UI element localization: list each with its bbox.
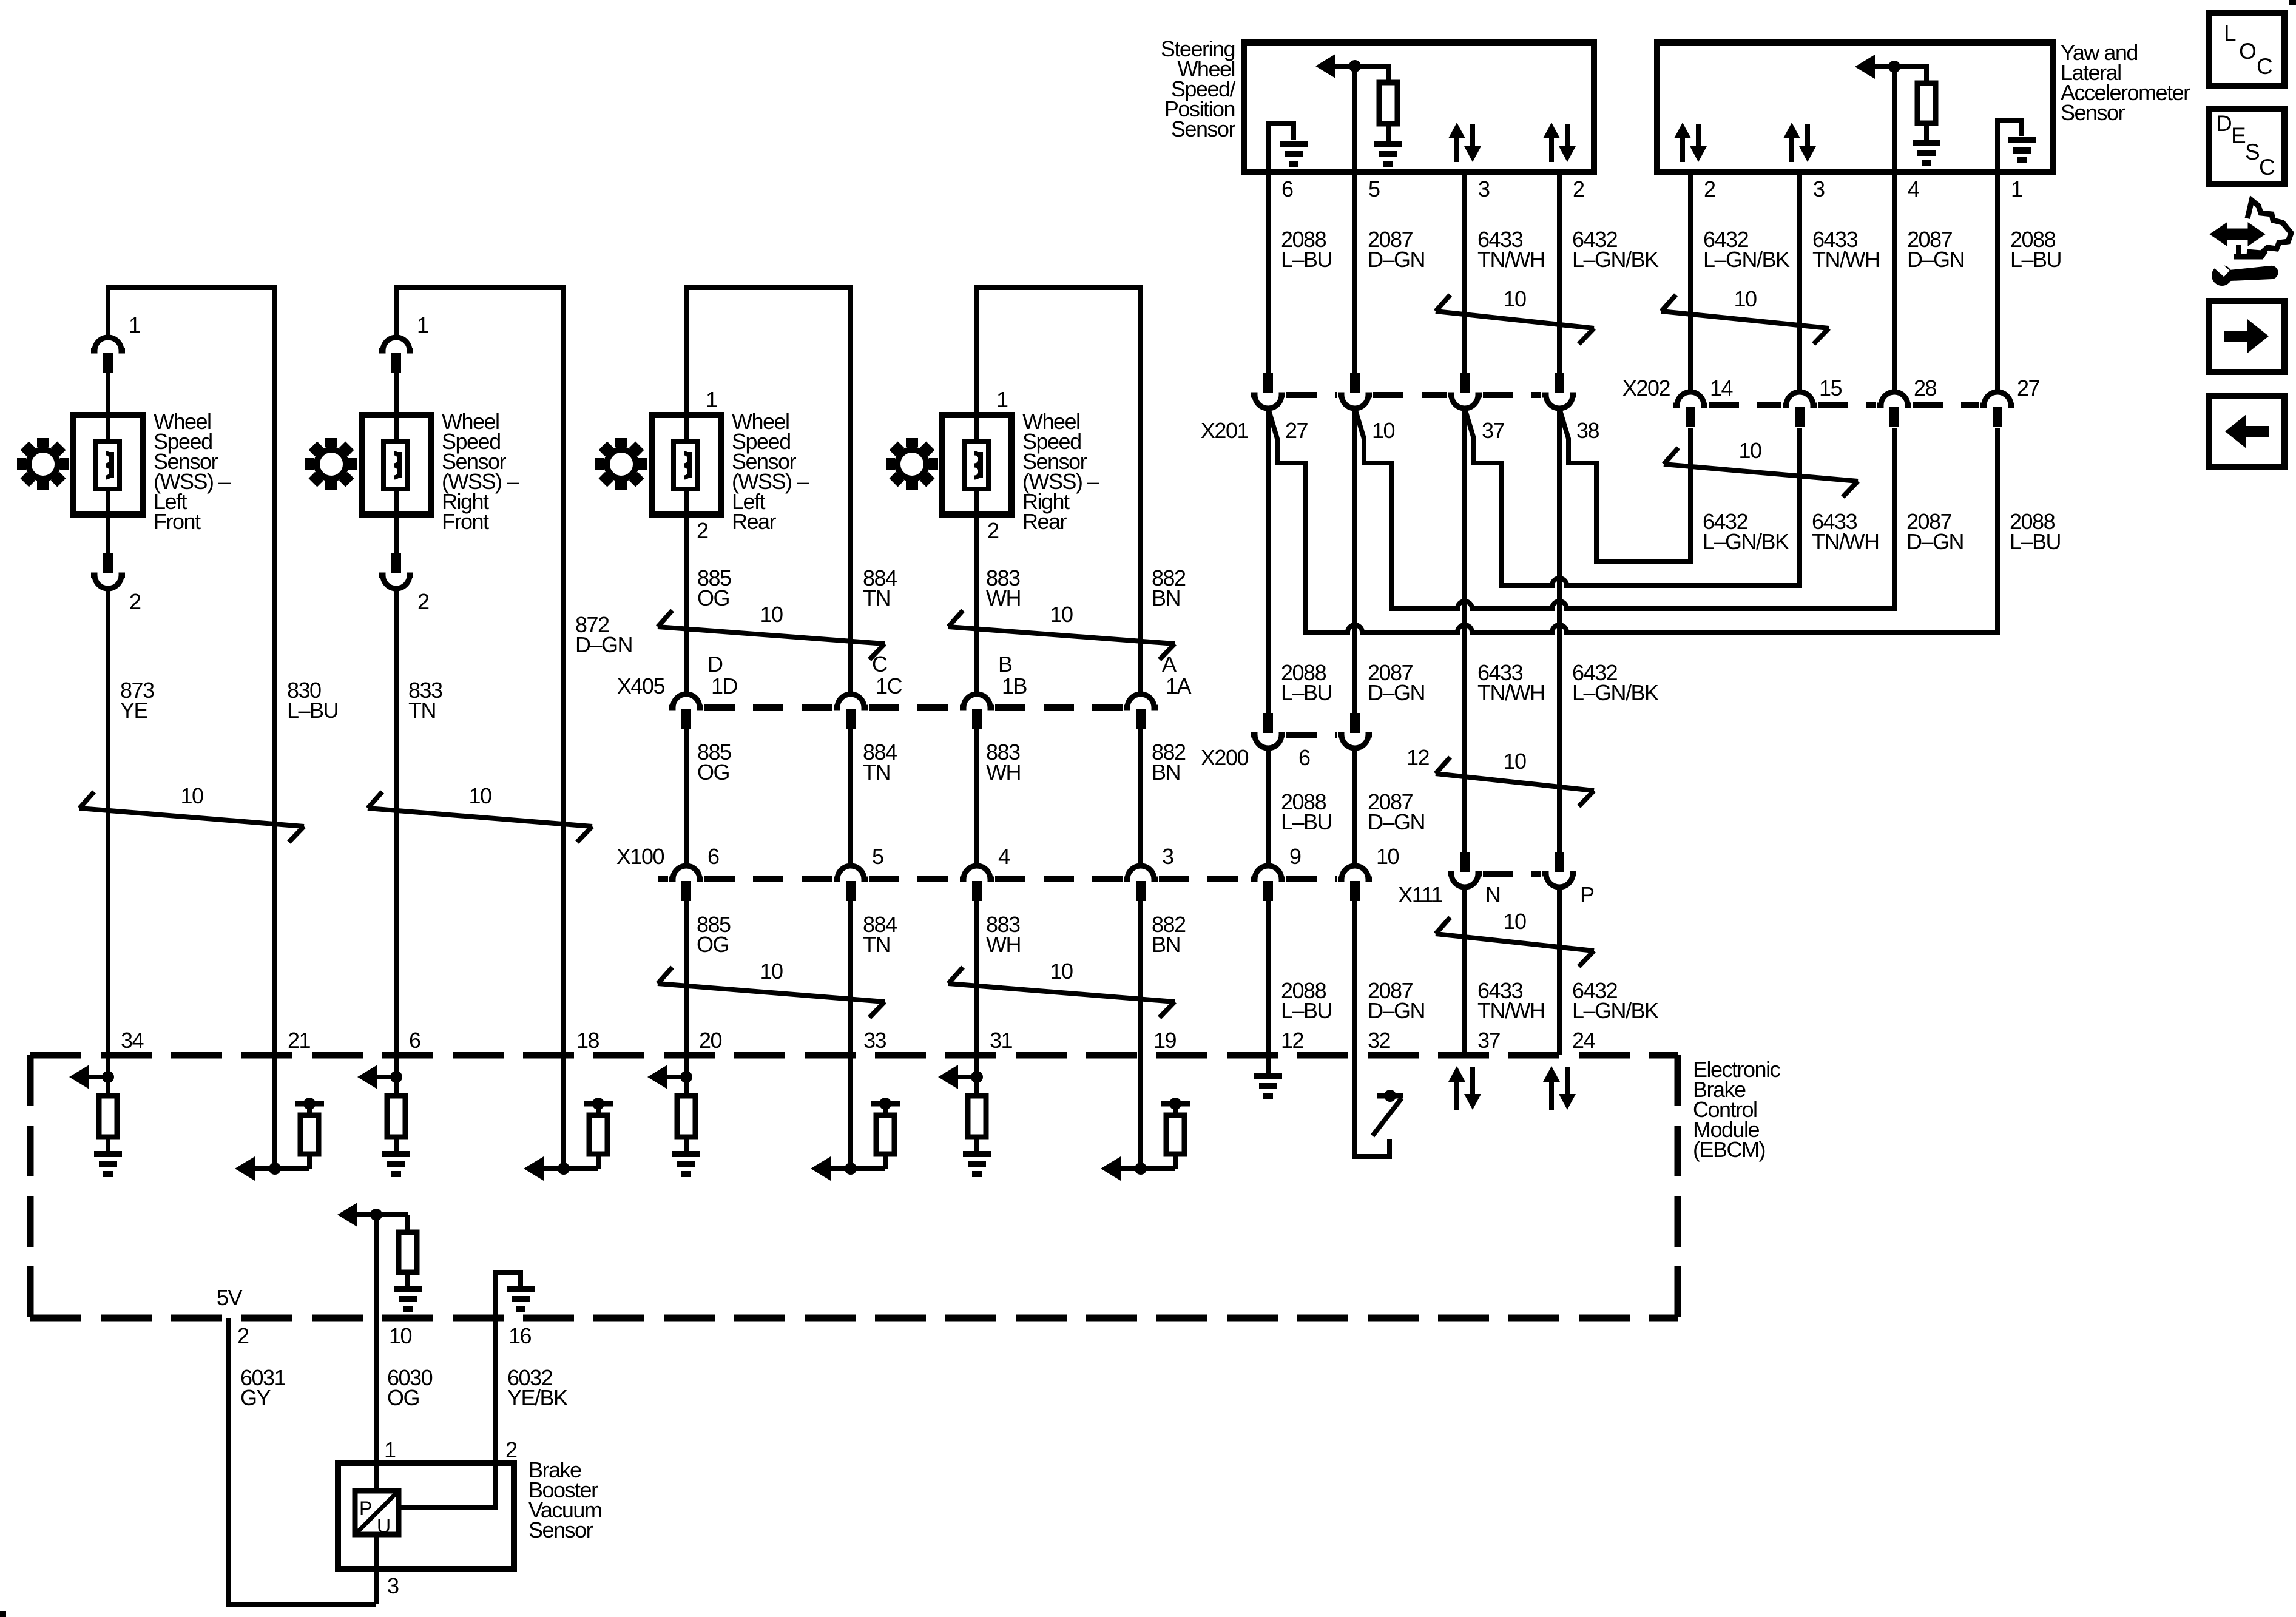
svg-text:2: 2: [987, 518, 999, 543]
svg-text:Front: Front: [154, 509, 201, 534]
svg-text:L–GN/BK: L–GN/BK: [1572, 680, 1659, 705]
svg-text:34: 34: [121, 1028, 144, 1053]
steering sensor pin 5 internal wire: [1352, 66, 1357, 172]
steering sensor pin 2 stub wire: [1557, 172, 1562, 373]
svg-text:2: 2: [697, 518, 708, 543]
wire X201 branch from x=2090 to X202 at x=3292: [1268, 408, 1997, 632]
connector X201 terminal pin 27: [1263, 373, 1273, 393]
svg-text:TN/WH: TN/WH: [1477, 247, 1544, 272]
EBCM pin 21 internal resistor branch: [307, 1154, 312, 1169]
wire X201 branch from x=2414 to X202 at x=2966: [1465, 408, 1800, 586]
svg-text:2: 2: [129, 589, 141, 614]
svg-text:TN: TN: [863, 586, 890, 610]
WSS Left Front wire pin1-to-box: [106, 371, 110, 416]
EBCM pin 31 internal arrow: [938, 1065, 958, 1089]
svg-text:1: 1: [417, 312, 428, 337]
EBCM pin 6 internal resistor: [387, 1096, 405, 1137]
wire steering sensor to X201 at x=2414: [1462, 172, 1467, 373]
twisted pair symbol wires 885/884 below X100: [658, 967, 672, 984]
svg-text:10: 10: [1503, 286, 1526, 311]
EBCM pin 19 internal wire: [1138, 1055, 1143, 1169]
EBCM pin 33 internal arrow: [811, 1156, 831, 1181]
WSS Left Front inner sensor element: [95, 441, 120, 489]
connector X202 terminal pin 14: [1673, 392, 1707, 405]
WSS Right Front pin 2 inline connector: [391, 553, 401, 573]
steering wheel speed/position sensor box: [1244, 42, 1594, 172]
EBCM pin 33 internal horizontal wire: [829, 1166, 885, 1171]
yaw sensor pin 4 internal wire: [1892, 67, 1897, 172]
svg-text:BN: BN: [1152, 760, 1180, 785]
svg-text:X202: X202: [1622, 376, 1670, 400]
svg-text:TN: TN: [863, 932, 890, 957]
steering sensor internal resistor pin 5: [1379, 83, 1397, 124]
WSS Left Front wire box-to-pin2: [106, 515, 110, 553]
svg-text:TN/WH: TN/WH: [1477, 680, 1544, 705]
svg-text:X200: X200: [1201, 745, 1249, 770]
svg-text:16: 16: [508, 1323, 532, 1348]
svg-text:32: 32: [1368, 1028, 1391, 1053]
WSS Left Front pin 2 wire down to EBCM: [106, 589, 110, 1055]
BBVS wire pin3 down: [374, 1534, 379, 1604]
connector X405 terminal pin D/1D: [669, 694, 703, 707]
EBCM pin 34 internal wire: [106, 1055, 110, 1096]
connector X202 terminal pin 27: [1980, 392, 2014, 405]
svg-text:2: 2: [1573, 177, 1584, 201]
EBCM pin 33 internal wire: [848, 1055, 853, 1169]
yaw sensor internal junction dot pin 4: [1888, 61, 1900, 73]
svg-text:D: D: [707, 652, 723, 677]
EBCM pin 10 wire to bottom: [374, 1215, 379, 1318]
twisted pair symbol wires 883/882 below X100: [948, 967, 963, 984]
EBCM pin 10 internal ground symbol: [405, 1272, 410, 1288]
svg-text:YE/BK: YE/BK: [507, 1385, 568, 1410]
svg-text:10: 10: [1734, 286, 1757, 311]
yaw sensor pin 1 stub wire: [1995, 172, 2000, 393]
EBCM pin 31 internal ground symbol: [974, 1137, 979, 1153]
svg-text:L–BU: L–BU: [1281, 998, 1332, 1023]
svg-text:WH: WH: [986, 760, 1021, 785]
svg-text:S: S: [2245, 140, 2259, 164]
svg-text:(EBCM): (EBCM): [1693, 1137, 1765, 1162]
svg-text:1C: 1C: [876, 673, 902, 698]
EBCM pin 20 internal arrow: [647, 1065, 667, 1089]
wire 6030 OG EBCM pin10 to BBVS pin1: [374, 1318, 379, 1491]
svg-text:20: 20: [699, 1028, 722, 1053]
BBVS internal wire pin2 to transducer: [399, 1463, 496, 1508]
wire 2087 D-GN X201 pin10 down to X200: [1352, 408, 1357, 715]
EBCM pin 6 internal ground symbol: [394, 1137, 399, 1153]
svg-text:P: P: [1580, 882, 1594, 907]
svg-text:TN/WH: TN/WH: [1812, 247, 1879, 272]
yaw sensor pin 4 stub wire: [1892, 172, 1897, 393]
EBCM pin 33 internal resistor branch: [883, 1154, 888, 1169]
svg-text:18: 18: [576, 1028, 599, 1053]
wire 2087 D-GN X200 pin12 down to X100 row: [1352, 748, 1357, 866]
steering sensor internal arrow pin 5: [1315, 54, 1335, 78]
wire 6433 TN/WH X201 pin37 down to X111: [1462, 408, 1467, 852]
svg-text:2: 2: [417, 589, 429, 614]
WSS Right Front component box: [362, 415, 431, 515]
svg-text:5: 5: [1368, 177, 1380, 201]
EBCM pin 19 internal resistor branch: [1173, 1154, 1178, 1169]
connector X111 terminal pin P: [1555, 852, 1564, 872]
svg-text:X111: X111: [1398, 882, 1442, 907]
svg-text:5V: 5V: [217, 1285, 243, 1310]
electronic brake control module EBCM dashed outline: [30, 1052, 1678, 1059]
yaw sensor internal resistor wire pin 4: [1894, 67, 1926, 83]
connector X202 dashed row: [1709, 402, 1781, 408]
wire 2088 L-BU X100 row pin9 down to EBCM pin12: [1266, 899, 1271, 1055]
DESC legend box icon: [2209, 109, 2284, 184]
svg-text:TN/WH: TN/WH: [1812, 529, 1879, 554]
svg-text:L–GN/BK: L–GN/BK: [1703, 247, 1790, 272]
svg-text:OG: OG: [697, 932, 729, 957]
yaw sensor internal arrow pin 4: [1855, 55, 1875, 79]
wire below X100 at x=1131 to EBCM: [684, 899, 689, 1055]
EBCM pin 31 internal resistor: [968, 1096, 986, 1137]
svg-text:E: E: [2231, 123, 2246, 148]
wire steering sensor to X201 at x=2090: [1266, 172, 1271, 373]
connector X200 terminal pin 12: [1350, 713, 1360, 733]
svg-text:28: 28: [1914, 376, 1937, 400]
svg-text:OG: OG: [387, 1385, 419, 1410]
svg-text:33: 33: [863, 1028, 886, 1053]
EBCM pin 19 internal horizontal wire: [1119, 1166, 1175, 1171]
steering sensor pin 3 bidirectional signal glyph: [1448, 123, 1465, 138]
EBCM pin 20 internal junction dot: [680, 1071, 692, 1083]
yaw and lateral accelerometer sensor box: [1657, 42, 2053, 172]
WSS Right Front pin 1 inline connector: [379, 337, 413, 351]
connector X202 terminal pin 15: [1783, 392, 1817, 405]
steering sensor pin 6 internal ground wire: [1268, 124, 1294, 172]
WSS Right Front wire box-to-pin2: [394, 515, 399, 553]
svg-text:Rear: Rear: [1022, 509, 1067, 534]
svg-text:6: 6: [1281, 177, 1293, 201]
svg-text:OG: OG: [697, 760, 729, 785]
EBCM pin 18 internal arrow: [524, 1156, 544, 1181]
wire 2088 L-BU X200 pin6 down to X100 row: [1266, 748, 1271, 866]
back arrow legend box icon: [2209, 396, 2284, 467]
connector X405 terminal pin A/1A: [1124, 694, 1158, 707]
svg-text:21: 21: [288, 1028, 311, 1053]
yaw sensor internal resistor pin 4: [1917, 83, 1936, 123]
EBCM pin 10 internal junction dot and arrow: [337, 1203, 357, 1227]
svg-text:L–BU: L–BU: [1281, 247, 1332, 272]
svg-text:6: 6: [1298, 745, 1310, 770]
svg-text:D–GN: D–GN: [1368, 809, 1425, 834]
svg-text:C: C: [2259, 155, 2275, 180]
connector X405 dashed row: [704, 704, 832, 711]
EBCM pin 24 bidirectional signal glyph: [1543, 1066, 1560, 1082]
connector X100/X200 terminal pin 4: [960, 866, 994, 879]
connector X405 terminal pin B/1B: [960, 694, 994, 707]
steering sensor pin 3 stub wire: [1462, 172, 1467, 373]
EBCM pin 21 internal horizontal wire: [253, 1166, 309, 1171]
WSS Right Front inner sensor element: [383, 441, 408, 489]
twisted pair symbol wires 6433/6432 (below X111): [1436, 917, 1450, 934]
wire steering sensor to X201 at x=2570: [1557, 172, 1562, 373]
svg-text:3: 3: [1813, 177, 1825, 201]
svg-text:4: 4: [998, 844, 1010, 869]
connector X201 dashed row: [1286, 392, 1337, 398]
svg-text:19: 19: [1153, 1028, 1177, 1053]
EBCM pin 31 internal wire: [974, 1055, 979, 1096]
WSS Left Rear inner sensor element: [674, 441, 698, 489]
svg-text:Rear: Rear: [732, 509, 777, 534]
wire below X100 at x=1610 to EBCM: [974, 899, 979, 1055]
EBCM pin 18 internal horizontal wire: [542, 1166, 598, 1171]
steering sensor internal junction dot pin 5: [1349, 60, 1361, 72]
connector X100 dashed row: [658, 876, 668, 882]
connector X200 dashed row: [1286, 732, 1337, 738]
EBCM pin 34 internal junction dot: [102, 1071, 114, 1083]
EBCM pin 6 internal wire: [394, 1055, 399, 1096]
connector X100/X200 terminal pin 3: [1124, 866, 1158, 879]
steering sensor pin 6 stub wire: [1266, 172, 1271, 373]
EBCM pin 21 internal junction dot: [269, 1163, 281, 1175]
svg-text:L–BU: L–BU: [2010, 529, 2061, 554]
EBCM pin 34 internal ground symbol: [106, 1137, 110, 1153]
svg-text:2: 2: [237, 1323, 249, 1348]
svg-text:2: 2: [1704, 177, 1715, 201]
svg-text:37: 37: [1477, 1028, 1501, 1053]
svg-text:YE: YE: [120, 698, 148, 723]
svg-text:TN: TN: [408, 698, 436, 723]
WSS Left Front pin 2 inline connector: [103, 553, 113, 573]
wire 6031 GY 5V supply EBCM pin2 to BBVS pin3: [228, 1318, 376, 1604]
svg-text:1: 1: [2011, 177, 2022, 201]
diagnostic tool icon: [2211, 224, 2264, 245]
WSS Left Front component box: [73, 415, 143, 515]
svg-text:4: 4: [1908, 177, 1919, 201]
steering sensor internal resistor wire pin 5: [1355, 66, 1388, 83]
twisted pair symbol wires 883/882 above X405: [948, 610, 963, 627]
svg-text:10: 10: [1376, 844, 1399, 869]
svg-text:X100: X100: [616, 844, 664, 869]
EBCM pin 18 internal junction dot: [558, 1163, 570, 1175]
WSS Right Rear inner sensor element: [964, 441, 988, 489]
twisted pair symbol wires 885/884 above X405: [658, 610, 672, 627]
svg-text:12: 12: [1406, 745, 1430, 770]
twisted pair symbol wires 6433/6432 (above X111): [1436, 757, 1450, 774]
steering sensor pin 5 stub wire: [1352, 172, 1357, 373]
svg-text:D–GN: D–GN: [1368, 998, 1425, 1023]
EBCM pin 20 internal resistor: [677, 1096, 695, 1137]
yaw sensor pin 3 bidirectional signal glyph: [1783, 123, 1800, 138]
svg-text:10: 10: [180, 783, 203, 808]
wire steering sensor to X201 at x=2233: [1352, 172, 1357, 373]
wheel speed sensor WSS Right Rear - loop wire pin 1 to pin 1 top: [977, 288, 1141, 695]
svg-text:15: 15: [1819, 376, 1842, 400]
svg-text:U: U: [377, 1515, 390, 1537]
EBCM pin 37 bidirectional signal glyph: [1448, 1066, 1465, 1082]
EBCM pin 19 internal junction dot: [1135, 1163, 1147, 1175]
svg-text:3: 3: [387, 1573, 399, 1598]
svg-text:1: 1: [384, 1437, 396, 1462]
svg-text:Front: Front: [442, 509, 489, 534]
yaw sensor pin 1 ground symbol: [2008, 137, 2036, 143]
svg-text:O: O: [2239, 39, 2256, 64]
EBCM pin 10 internal resistor: [405, 1215, 410, 1232]
EBCM pin 19 internal arrow: [1101, 1156, 1121, 1181]
svg-text:L–BU: L–BU: [1281, 809, 1332, 834]
EBCM pin 12 internal ground symbol: [1266, 1055, 1271, 1075]
svg-text:BN: BN: [1152, 586, 1180, 610]
svg-text:27: 27: [2017, 376, 2040, 400]
svg-text:B: B: [998, 652, 1012, 677]
svg-text:3: 3: [1162, 844, 1173, 869]
wire 6432 L-GN/BK X111 pinP down to EBCM pin24: [1557, 887, 1562, 1055]
forward arrow legend box icon: [2209, 301, 2284, 372]
svg-text:TN/WH: TN/WH: [1477, 998, 1544, 1023]
EBCM pin 21 internal wire: [272, 1055, 277, 1169]
EBCM pin 18 internal wire: [561, 1055, 566, 1169]
WSS Left Front tone ring gear icon: [37, 438, 49, 447]
svg-text:5: 5: [872, 844, 883, 869]
svg-text:3: 3: [1478, 177, 1490, 201]
EBCM pin 16 internal ground symbol: [507, 1286, 535, 1292]
WSS Left Rear component box: [652, 415, 721, 515]
svg-text:L–GN/BK: L–GN/BK: [1572, 998, 1659, 1023]
svg-text:Sensor: Sensor: [2061, 100, 2125, 125]
svg-text:38: 38: [1576, 418, 1599, 443]
wheel speed sensor WSS Left Front - loop wire pin 1 to pin 1 top: [108, 288, 275, 1055]
EBCM pin 20 internal wire: [684, 1055, 689, 1096]
yaw sensor pin 4 resistor ground symbol: [1924, 123, 1929, 142]
svg-text:6: 6: [707, 844, 719, 869]
svg-text:1: 1: [706, 387, 717, 412]
wire 6032 YE/BK EBCM pin16 to BBVS pin2: [493, 1318, 498, 1508]
svg-text:WH: WH: [986, 932, 1021, 957]
svg-text:10: 10: [1050, 959, 1073, 984]
svg-text:10: 10: [468, 783, 491, 808]
EBCM pin 34 internal arrow: [69, 1065, 89, 1089]
svg-text:C: C: [2257, 54, 2272, 79]
EBCM pin 32 switch blade: [1373, 1098, 1402, 1136]
twisted pair symbol wires 833/872: [368, 792, 382, 808]
EBCM pin 6 internal junction dot: [390, 1071, 402, 1083]
svg-text:C: C: [872, 652, 887, 677]
wire X201 branch from x=2233 to X202 at x=3122: [1355, 408, 1894, 609]
wire C below X405: [848, 727, 853, 866]
wire B below X405: [974, 727, 979, 866]
EBCM pin 32 switch contact bar: [1377, 1093, 1403, 1099]
WSS Left Front wire through box: [106, 415, 110, 515]
svg-text:10: 10: [1503, 749, 1526, 774]
svg-text:D–GN: D–GN: [1368, 680, 1425, 705]
svg-text:X201: X201: [1201, 418, 1249, 443]
connector X100/X200 terminal pin 9: [1251, 866, 1285, 879]
connector X201 terminal pin 38: [1555, 373, 1564, 393]
page corner mark bottom left: [0, 1611, 6, 1617]
connector X111 terminal pin N: [1460, 852, 1470, 872]
svg-text:D–GN: D–GN: [575, 632, 632, 657]
wheel speed sensor WSS Left Rear - loop wire pin 1 to pin 1 top: [686, 288, 851, 695]
wire 2088 L-BU X201 pin27 down to X200: [1266, 408, 1271, 715]
twisted pair symbol wires 6432/6433 (yaw): [1661, 295, 1676, 311]
svg-text:L–BU: L–BU: [1281, 680, 1332, 705]
connector X405 terminal pin C/1C: [834, 694, 868, 707]
svg-text:Sensor: Sensor: [528, 1517, 593, 1542]
EBCM pin 32 internal wire to switch: [1355, 1055, 1389, 1156]
BBVS wire pin1 through transducer: [374, 1463, 379, 1491]
svg-text:10: 10: [1372, 418, 1395, 443]
EBCM pin 33 internal tie bar: [871, 1101, 900, 1107]
wire X201 branch from x=2570 to X202 at x=2786: [1559, 408, 1690, 562]
WSS Right Rear wire through box: [974, 415, 979, 515]
connector X100/X200 terminal pin 10: [1338, 866, 1372, 879]
svg-text:1: 1: [996, 387, 1008, 412]
connector X201 terminal pin 37: [1460, 373, 1470, 393]
EBCM pin 18 internal tie bar: [584, 1101, 613, 1107]
WSS Right Front wire pin1-to-box: [394, 371, 399, 416]
EBCM pin 33 internal junction dot: [845, 1163, 857, 1175]
svg-text:27: 27: [1285, 418, 1308, 443]
svg-text:A: A: [1162, 652, 1177, 677]
WSS Right Rear pin 2 wire down to X405: [974, 515, 979, 695]
EBCM pin 21 internal tie bar: [295, 1101, 324, 1107]
wheel speed sensor WSS Right Front - loop wire pin 1 to pin 1 top: [396, 288, 564, 1055]
svg-text:L–BU: L–BU: [2010, 247, 2061, 272]
svg-text:WH: WH: [986, 586, 1021, 610]
svg-text:1B: 1B: [1002, 673, 1027, 698]
svg-text:6: 6: [409, 1028, 420, 1053]
svg-text:24: 24: [1572, 1028, 1595, 1053]
svg-text:L–GN/BK: L–GN/BK: [1572, 247, 1659, 272]
wire 2087 D-GN X100 row pin10 down to EBCM pin32: [1352, 899, 1357, 1055]
connector X111 dashed row: [1483, 871, 1541, 877]
WSS Right Front wire through box: [394, 415, 399, 515]
connector X202 terminal pin 28: [1877, 392, 1911, 405]
svg-text:10: 10: [760, 602, 783, 627]
twisted pair symbol wires 6433/6432 (steering): [1436, 295, 1450, 311]
svg-text:TN: TN: [863, 760, 890, 785]
WSS Right Front tone ring gear icon: [325, 438, 337, 447]
twisted pair symbol wires 6432/6433 (below X202): [1664, 448, 1678, 464]
svg-text:1D: 1D: [711, 673, 738, 698]
wire below X100 at x=1880 to EBCM: [1138, 899, 1143, 1055]
WSS Right Front pin 2 wire down to EBCM: [394, 589, 399, 1055]
EBCM pin 34 internal resistor: [99, 1096, 117, 1137]
wire A below X405: [1138, 727, 1143, 866]
svg-text:31: 31: [990, 1028, 1013, 1053]
EBCM pin 6 internal arrow: [357, 1065, 377, 1089]
svg-text:OG: OG: [697, 586, 729, 610]
EBCM pin 18 internal resistor branch: [596, 1154, 601, 1169]
EBCM pin 19 internal tie bar: [1161, 1101, 1190, 1107]
svg-text:10: 10: [1050, 602, 1073, 627]
wire 6432 L-GN/BK X201 pin38 down to X111: [1557, 408, 1562, 852]
svg-text:D–GN: D–GN: [1368, 247, 1425, 272]
svg-text:1A: 1A: [1166, 673, 1192, 698]
WSS Left Rear pin 2 wire down to X405: [684, 515, 689, 695]
svg-text:N: N: [1485, 882, 1501, 907]
svg-text:D–GN: D–GN: [1906, 529, 1963, 554]
BBVS P/U transducer box: [355, 1491, 399, 1534]
svg-text:L–GN/BK: L–GN/BK: [1703, 529, 1789, 554]
svg-text:L: L: [2224, 21, 2236, 46]
yaw sensor pin 3 stub wire: [1797, 172, 1802, 393]
svg-text:2: 2: [505, 1437, 517, 1462]
WSS Right Rear component box: [942, 415, 1011, 515]
EBCM pin 21 internal arrow: [235, 1156, 255, 1181]
steering sensor pin 5 resistor ground symbol: [1386, 124, 1391, 143]
EBCM pin 31 internal junction dot: [971, 1071, 983, 1083]
yaw sensor pin 2 stub wire: [1688, 172, 1693, 393]
svg-text:L–BU: L–BU: [287, 698, 338, 723]
connector X100/X200 terminal pin 6: [669, 866, 703, 879]
WSS Left Rear wire through box: [684, 415, 689, 515]
